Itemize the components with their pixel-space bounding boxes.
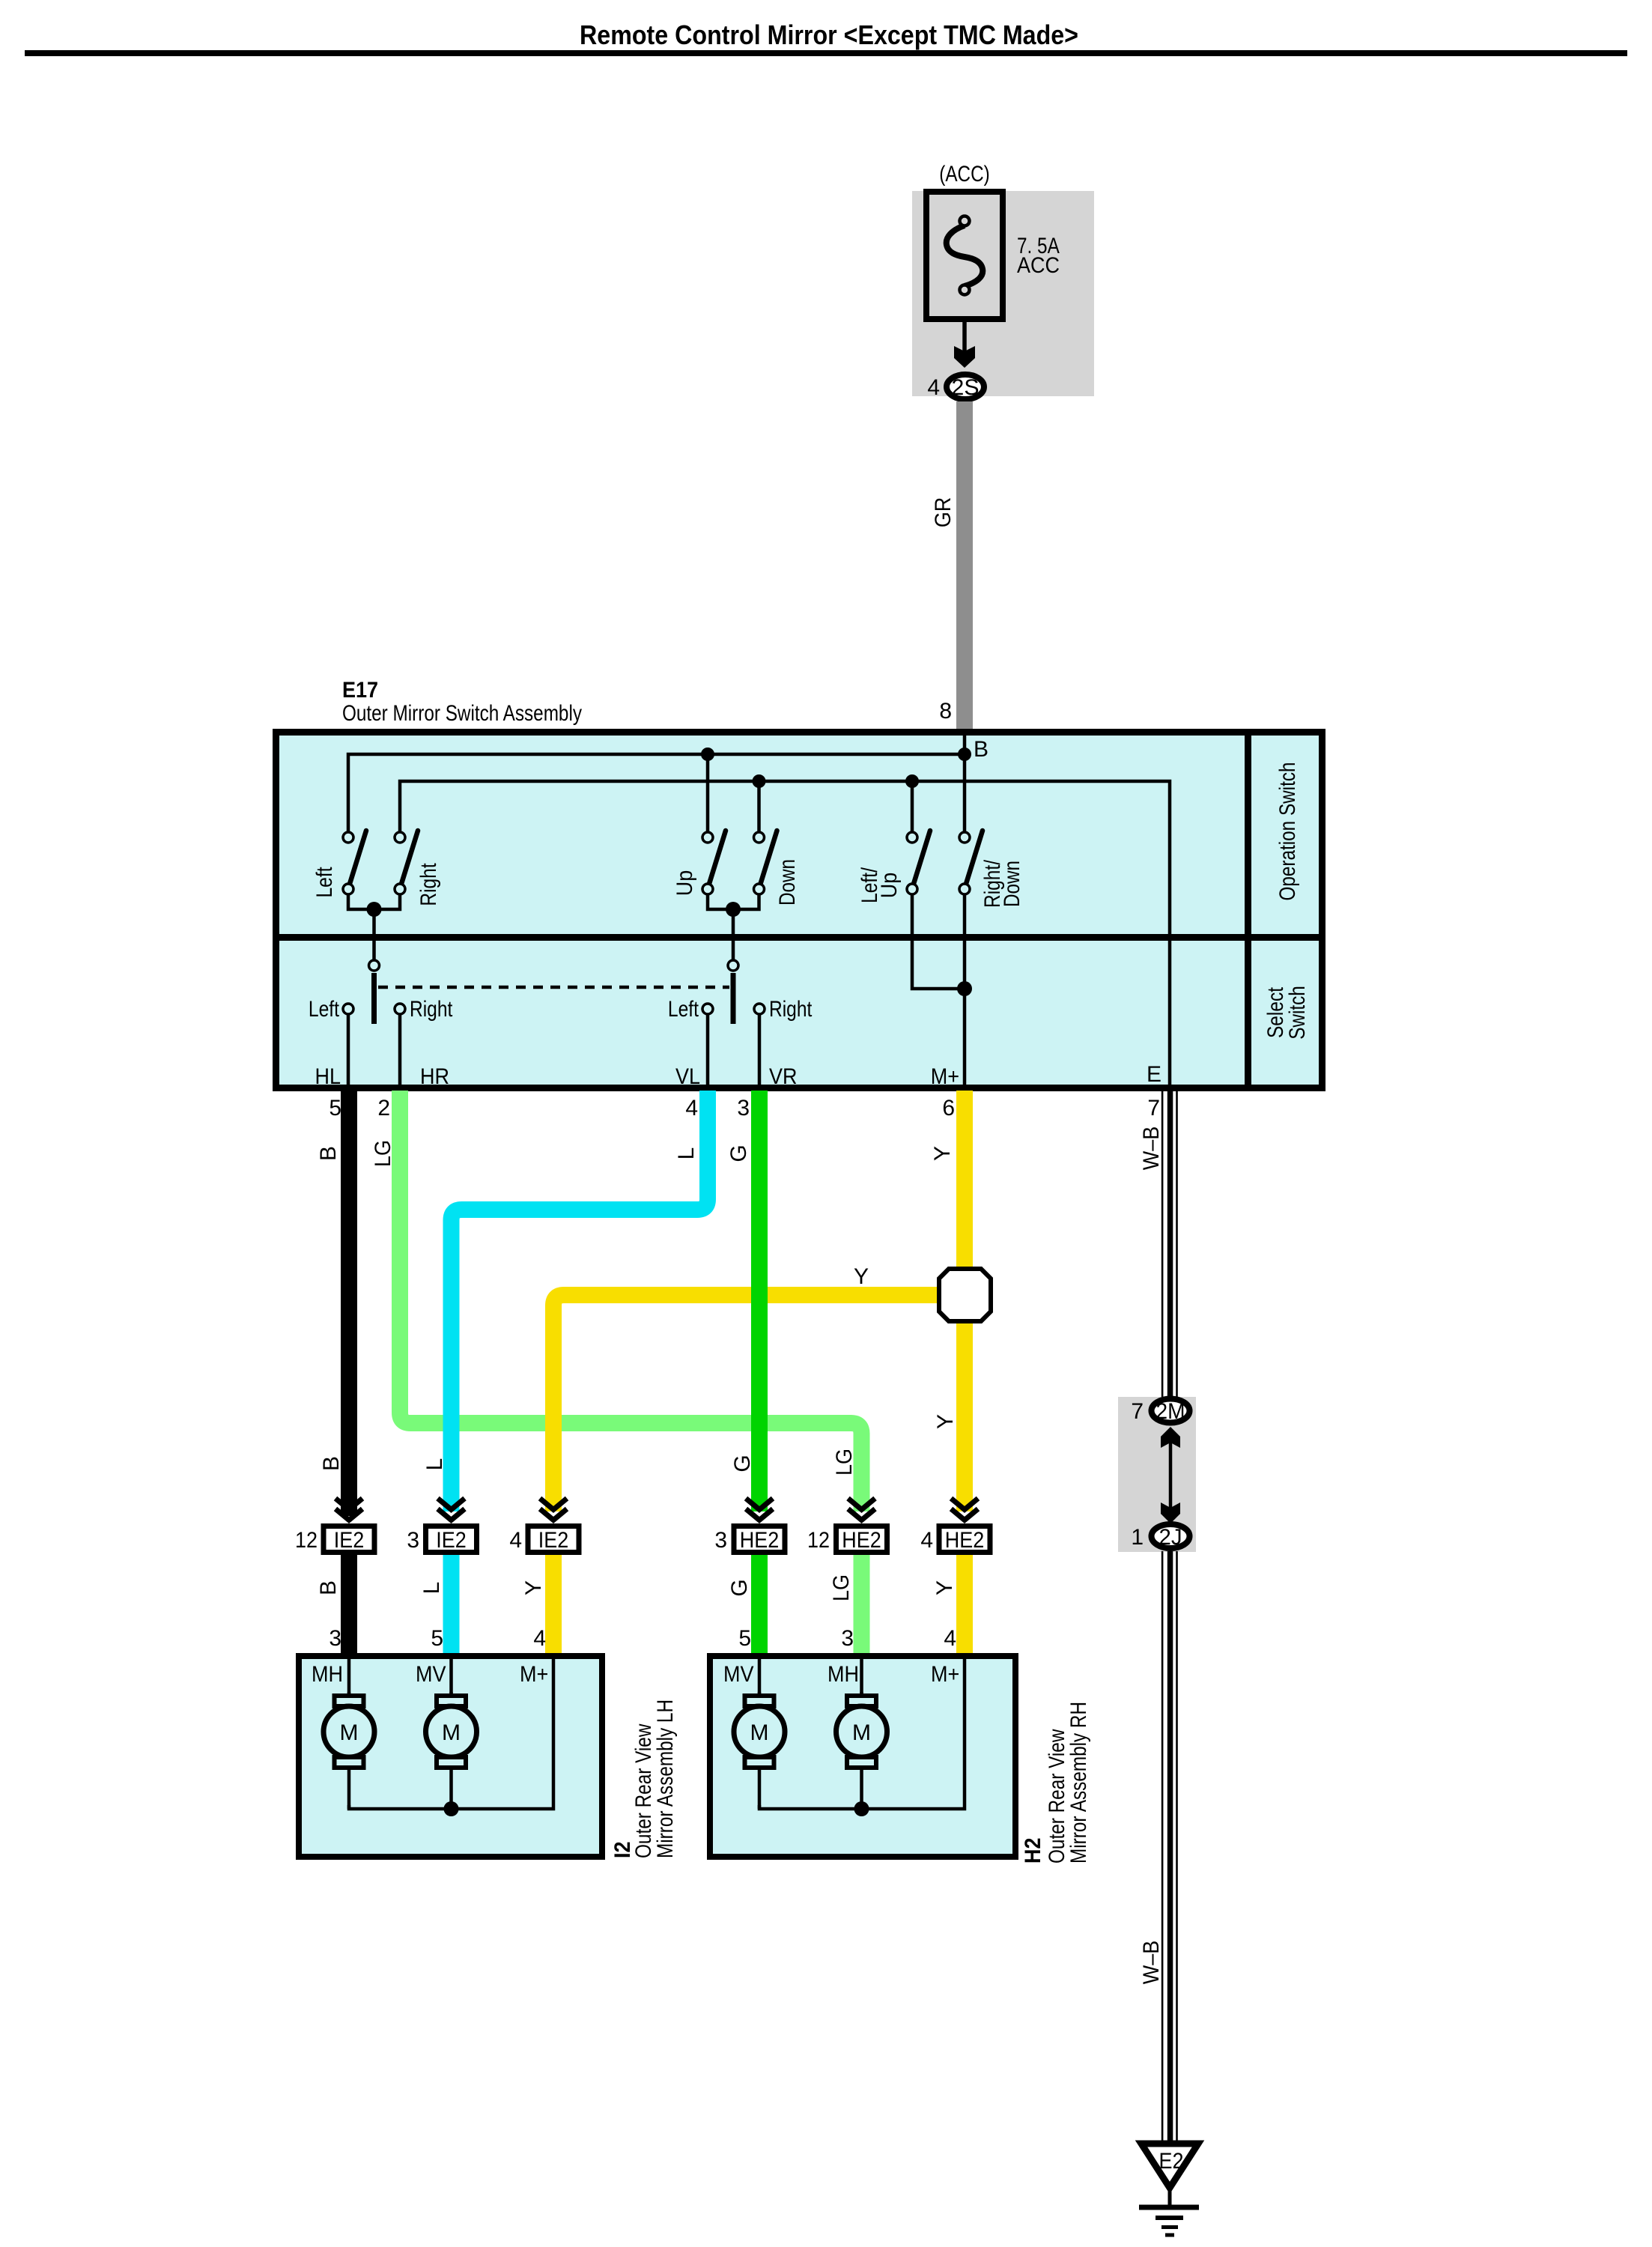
svg-text:IE2: IE2 (334, 1528, 365, 1553)
svg-text:LG: LG (832, 1449, 857, 1476)
svg-text:5: 5 (738, 1626, 751, 1651)
svg-text:IE2: IE2 (436, 1528, 467, 1553)
svg-text:VL: VL (675, 1064, 700, 1089)
connector 2J pin 1 (1131, 1524, 1189, 1550)
svg-text:Y: Y (932, 1580, 957, 1595)
svg-text:Right: Right (416, 863, 441, 906)
wire Y: IE2 to mirror LH pin 4 (521, 1555, 553, 1656)
wire: bus B (top) (348, 748, 971, 831)
svg-text:W–B: W–B (1139, 1126, 1164, 1171)
svg-text:2S: 2S (952, 375, 980, 400)
wire: RH MV to motor (758, 1656, 762, 1696)
pin M+ (6) (931, 1064, 959, 1121)
wire B: HL to IE2 (316, 1091, 349, 1516)
svg-text:Left: Left (309, 997, 340, 1022)
svg-text:G: G (727, 1579, 752, 1596)
svg-text:M+: M+ (931, 1662, 959, 1687)
svg-text:ACC: ACC (1017, 253, 1060, 278)
wire: LH MV to motor (449, 1656, 453, 1696)
wire L: VL to IE2 (422, 1091, 708, 1511)
svg-text:H2: H2 (1021, 1838, 1045, 1864)
motor RH horizontal (836, 1692, 887, 1809)
connector IE2 pin 12 (295, 1499, 374, 1553)
svg-text:5: 5 (329, 1096, 341, 1121)
svg-text:4: 4 (685, 1096, 698, 1121)
wire Y: HE2 to mirror RH pin 4 (932, 1555, 965, 1656)
connector HE2 pin 12 (807, 1499, 887, 1553)
motor LH vertical (426, 1692, 477, 1809)
fuse 7.5A ACC (926, 192, 1060, 319)
svg-text:5: 5 (431, 1626, 443, 1651)
wire: bus E (second) (400, 774, 1170, 1085)
select switch 1 (309, 960, 453, 1024)
pin HL (5) (315, 1015, 349, 1121)
svg-text:Right: Right (769, 997, 813, 1022)
svg-text:2M: 2M (1156, 1399, 1185, 1424)
switch Right (395, 831, 441, 906)
svg-text:Mirror Assembly LH: Mirror Assembly LH (653, 1699, 678, 1858)
connector IE2 pin 4 (509, 1499, 579, 1553)
svg-text:3: 3 (841, 1626, 854, 1651)
svg-text:VR: VR (769, 1064, 798, 1089)
svg-text:3: 3 (714, 1528, 727, 1553)
svg-text:B: B (974, 737, 989, 762)
wire: pair1 common junction (348, 894, 400, 960)
junction block shading (ACC area) (912, 191, 1094, 396)
svg-text:GR: GR (931, 497, 956, 528)
mirror assembly LH box I2 (299, 1656, 602, 1857)
svg-text:12: 12 (807, 1528, 830, 1553)
ground E2 (1139, 2144, 1199, 2235)
svg-text:L: L (674, 1147, 699, 1160)
switch Left/Up (857, 831, 930, 903)
svg-text:L: L (422, 1458, 447, 1471)
pin HR (2) (377, 1015, 449, 1121)
svg-text:LG: LG (829, 1574, 854, 1601)
svg-text:Remote Control Mirror <Except: Remote Control Mirror <Except TMC Made> (580, 19, 1078, 50)
connector HE2 pin 3 (714, 1499, 785, 1553)
svg-text:4: 4 (944, 1626, 956, 1651)
wire G: VR to HE2 (726, 1091, 759, 1511)
svg-text:2: 2 (377, 1096, 390, 1121)
pin E (7) (1147, 1062, 1161, 1121)
svg-text:Y: Y (854, 1264, 869, 1289)
svg-text:B: B (316, 1580, 341, 1595)
svg-text:7: 7 (1147, 1096, 1160, 1121)
connector 2M pin 7 (1131, 1399, 1189, 1425)
connector pass-through shading (2M/2J) (1118, 1397, 1196, 1552)
svg-text:3: 3 (737, 1096, 750, 1121)
svg-text:W–B: W–B (1139, 1941, 1164, 1985)
wire: pair3 to M+ (912, 894, 972, 1085)
wire: B feed (node B) (965, 736, 989, 831)
svg-text:E17: E17 (342, 678, 378, 703)
wire: LH MH to motor (347, 1656, 351, 1696)
svg-text:Up: Up (672, 870, 697, 897)
mirror assembly RH box H2 (710, 1656, 1015, 1857)
wire Y: splice to IE2 (left branch) (553, 1264, 938, 1511)
switch Up (672, 831, 726, 896)
svg-text:Outer Mirror Switch Assembly: Outer Mirror Switch Assembly (342, 701, 582, 726)
wire L: IE2 to mirror LH pin 5 (419, 1555, 452, 1656)
svg-text:HR: HR (420, 1064, 449, 1089)
svg-text:Mirror Assembly RH: Mirror Assembly RH (1066, 1702, 1091, 1864)
wire: RH MH to motor (860, 1656, 863, 1696)
svg-text:G: G (726, 1144, 751, 1162)
select switch 2 (668, 960, 813, 1024)
svg-text:4: 4 (533, 1626, 546, 1651)
svg-text:Right: Right (410, 997, 453, 1022)
svg-text:L: L (419, 1582, 444, 1595)
switch Left (312, 831, 366, 898)
svg-text:4: 4 (920, 1528, 933, 1553)
svg-text:Left: Left (312, 867, 337, 898)
connector IE2 pin 3 (407, 1499, 476, 1553)
svg-text:Up: Up (877, 873, 902, 899)
svg-text:Y: Y (521, 1580, 546, 1595)
svg-text:HL: HL (315, 1064, 341, 1089)
wire: RH M+ bus (759, 1656, 965, 1816)
svg-text:MH: MH (827, 1662, 859, 1687)
svg-text:E: E (1147, 1062, 1161, 1087)
svg-text:HE2: HE2 (945, 1528, 985, 1553)
svg-text:3: 3 (329, 1626, 341, 1651)
motor LH horizontal (324, 1692, 374, 1809)
splice octagon (939, 1269, 991, 1321)
svg-text:HE2: HE2 (842, 1528, 881, 1553)
svg-text:MH: MH (312, 1662, 343, 1687)
svg-text:8: 8 (939, 699, 952, 724)
wire: pair2 common junction (708, 894, 759, 960)
wire LG: HE2 to mirror RH pin 3 (829, 1555, 862, 1656)
svg-text:(ACC): (ACC) (939, 162, 990, 187)
wire: LH M+ bus (349, 1656, 553, 1816)
outer mirror switch assembly E17 box (273, 678, 1325, 1088)
svg-text:Switch: Switch (1285, 986, 1310, 1040)
svg-text:7: 7 (1131, 1399, 1144, 1424)
svg-text:B: B (316, 1146, 341, 1161)
svg-text:B: B (319, 1456, 344, 1471)
wire: 2M to 2J link (1161, 1427, 1180, 1523)
svg-text:Operation Switch: Operation Switch (1275, 762, 1300, 901)
connector 2S pin 4 (927, 374, 984, 400)
wire: fuse to 2S with arrow (954, 319, 975, 368)
wire LG: HR to HE2 (371, 1091, 862, 1511)
svg-text:Left: Left (668, 997, 699, 1022)
svg-text:Down: Down (1000, 861, 1024, 907)
svg-text:Down: Down (775, 859, 800, 906)
pin VR (3) (737, 1015, 797, 1121)
wire W-B: 2J to ground E2 (1139, 1551, 1178, 2143)
svg-text:M+: M+ (520, 1662, 548, 1687)
wire Y: M+ to splice and HE2 (930, 1091, 965, 1511)
pin VL (4) (675, 1015, 708, 1121)
switch Right/Down (959, 831, 1024, 908)
svg-text:MV: MV (416, 1662, 446, 1687)
svg-text:1: 1 (1131, 1525, 1144, 1550)
svg-text:4: 4 (927, 375, 940, 400)
svg-text:E2: E2 (1159, 2149, 1184, 2174)
wire W-B: E to 2M (1139, 1091, 1178, 1397)
svg-text:LG: LG (371, 1140, 395, 1167)
svg-text:2J: 2J (1159, 1525, 1182, 1550)
svg-text:3: 3 (407, 1528, 419, 1553)
svg-text:MV: MV (723, 1662, 754, 1687)
svg-text:Y: Y (930, 1146, 955, 1161)
wire G: HE2 to mirror RH pin 5 (727, 1555, 759, 1656)
svg-text:12: 12 (295, 1528, 318, 1553)
svg-text:G: G (730, 1455, 755, 1472)
wire GR (pin 8) (931, 401, 973, 732)
svg-text:IE2: IE2 (538, 1528, 569, 1553)
svg-text:4: 4 (509, 1528, 522, 1553)
header rule (25, 50, 1627, 56)
svg-text:HE2: HE2 (740, 1528, 780, 1553)
mechanical link (dashed) (378, 986, 729, 989)
connector HE2 pin 4 (920, 1499, 990, 1553)
svg-text:Y: Y (933, 1414, 958, 1429)
svg-text:6: 6 (942, 1096, 955, 1121)
wire B: IE2 to mirror LH pin 3 (316, 1555, 349, 1656)
svg-text:M+: M+ (931, 1064, 959, 1089)
motor RH vertical (734, 1692, 785, 1809)
switch Down (754, 831, 801, 906)
